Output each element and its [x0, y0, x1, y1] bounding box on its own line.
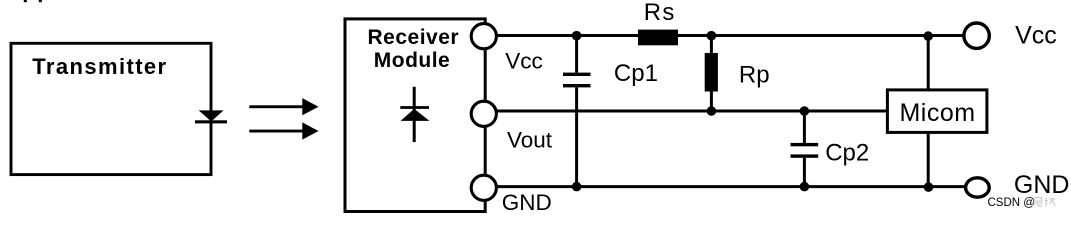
svg-text:Rs: Rs: [644, 0, 676, 26]
svg-text:Rp: Rp: [739, 62, 770, 89]
IR beam arrow 1: [249, 98, 318, 115]
junction Cp2-GND: [800, 182, 810, 192]
pin GND circle: [471, 175, 496, 200]
watermark CSDN: [988, 197, 1056, 209]
pin Vcc circle: [471, 24, 496, 49]
junction Cp1-Vcc: [572, 31, 582, 41]
resistor Rs: [638, 30, 678, 46]
capacitor Cp2: [791, 111, 819, 187]
terminal GND: [966, 178, 990, 197]
svg-text:Receiver: Receiver: [368, 26, 460, 49]
junction Rp-Vout: [707, 106, 717, 116]
junction Cp2-Vout: [800, 106, 810, 116]
photodiode in receiver: [400, 87, 429, 142]
pin Vout circle: [471, 101, 496, 126]
IR beam arrow 2: [249, 122, 318, 139]
capacitor Cp1: [563, 36, 591, 187]
svg-text:Transmitter: Transmitter: [32, 54, 167, 79]
svg-text:GND: GND: [502, 190, 552, 215]
svg-text:GND: GND: [1014, 171, 1070, 199]
svg-text:Vcc: Vcc: [1015, 22, 1057, 50]
Micom GND rail: [927, 132, 930, 187]
junction Micom-GND: [924, 182, 934, 192]
Micom Vcc rail: [927, 36, 930, 91]
receiver module box: [345, 19, 485, 212]
Micom U1 box: [887, 90, 987, 132]
terminal Vcc: [964, 23, 989, 48]
svg-text:Cp2: Cp2: [825, 140, 869, 167]
LED D1 on transmitter output: [195, 110, 227, 123]
svg-text:CSDN @: CSDN @: [988, 197, 1035, 209]
svg-text:Cp1: Cp1: [614, 60, 658, 87]
cropped text remnant top-left: [24, 0, 42, 2]
resistor Rp: [705, 36, 718, 112]
junction Rp-Vcc: [707, 31, 717, 41]
svg-text:Vout: Vout: [507, 128, 553, 153]
wire Vout net: [485, 110, 889, 113]
transmitter box: [11, 43, 211, 174]
wire GND net: [485, 185, 978, 188]
junction Micom-Vcc: [923, 31, 933, 41]
svg-text:Micom: Micom: [899, 99, 975, 127]
junction Cp1-GND: [572, 182, 582, 192]
svg-text:Vcc: Vcc: [505, 48, 543, 73]
Receiver Module label: [368, 26, 460, 72]
svg-text:Module: Module: [374, 49, 451, 72]
wire Vcc net: [485, 34, 977, 37]
